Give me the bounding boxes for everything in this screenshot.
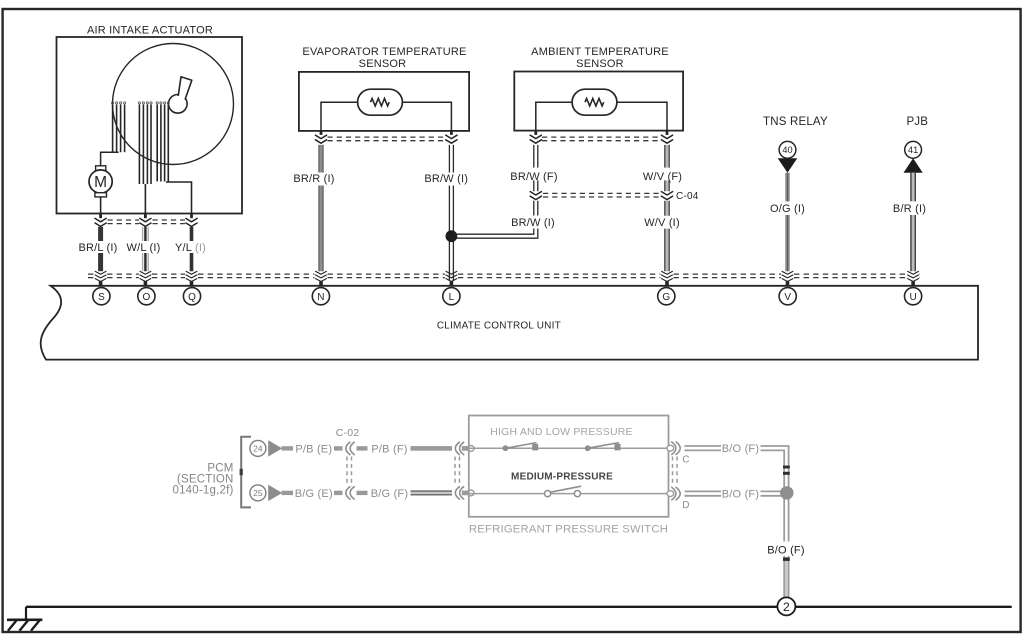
label C-02 (336, 427, 360, 439)
svg-text:P/B (F): P/B (F) (371, 443, 407, 455)
label W/L (I) (127, 242, 161, 254)
ground connector 2 (777, 597, 795, 615)
ambient connector dashes (542, 137, 661, 141)
wire BR/R (I) (319, 145, 323, 271)
svg-text:AIR INTAKE ACTUATOR: AIR INTAKE ACTUATOR (87, 24, 213, 36)
svg-text:2: 2 (783, 600, 790, 614)
ambient thermistor body (572, 89, 617, 115)
svg-text:AMBIENT TEMPERATURE: AMBIENT TEMPERATURE (531, 46, 669, 58)
climate connector break V (782, 271, 793, 281)
actuator key knob (169, 95, 188, 114)
svg-text:L: L (449, 292, 455, 303)
label Y/L (I) (175, 242, 206, 254)
air intake actuator box (57, 37, 243, 214)
wire Y/L (I) (190, 227, 194, 271)
label W/V (F) (643, 171, 682, 183)
wire W/V ambient (665, 145, 669, 271)
svg-text:0140-1g,2f): 0140-1g,2f) (172, 485, 233, 497)
climate connector break Q (186, 271, 197, 281)
connector C-04 break right (661, 192, 672, 200)
TNS relay arrow down (778, 158, 798, 173)
wire BR/W (I) ambient lower (451, 201, 558, 238)
climate unit pin V (779, 288, 796, 305)
ambient thermistor leads (536, 102, 667, 130)
svg-text:S: S (98, 292, 105, 303)
climate unit pin G (658, 288, 675, 305)
PJB pin 41 circle (905, 141, 922, 158)
PJB label (906, 116, 928, 128)
svg-text:BR/R (I): BR/R (I) (293, 173, 334, 185)
evaporator thermistor body (358, 89, 403, 115)
actuator key handle (178, 77, 192, 100)
svg-text:MEDIUM-PRESSURE: MEDIUM-PRESSURE (511, 472, 613, 483)
wire B/O (F) upper corner (761, 446, 789, 597)
ground symbol (7, 620, 42, 631)
air intake actuator label (87, 24, 213, 36)
switch inlet boundary dashes (455, 457, 460, 487)
PJB arrow up (904, 158, 923, 173)
svg-text:U: U (909, 292, 916, 303)
evaporator thermistor resistor element (371, 99, 390, 106)
climate unit pin Q (183, 288, 200, 305)
evaporator connector break right (446, 135, 457, 143)
evaporator connector dashes (328, 137, 446, 141)
svg-text:N: N (317, 292, 324, 303)
wire BR/W (I) evaporator (449, 145, 453, 281)
PCM pin 25 row B/G (250, 485, 474, 501)
refrigerant pressure switch box (469, 416, 669, 517)
wire O/G (I) (785, 173, 790, 271)
actuator connector break Q (186, 218, 197, 226)
label C-04 (676, 191, 699, 202)
wire bundle1 to motor (101, 152, 119, 166)
svg-text:C: C (682, 454, 689, 465)
ambient thermistor resistor element (585, 99, 604, 106)
climate unit pin U (905, 288, 922, 305)
climate connector break U (908, 271, 919, 281)
actuator wiper bundle 3 (156, 102, 169, 182)
switch outlet D row B/O (667, 487, 759, 510)
wire B/O (F) lower horizontal (761, 491, 782, 495)
wire bundle3 to pin Q stub (166, 182, 192, 214)
climate connector break L (446, 271, 457, 281)
switch row C wire (469, 447, 669, 449)
svg-text:BR/W (F): BR/W (F) (510, 171, 557, 183)
svg-text:D: D (682, 500, 689, 511)
climate unit connector dashes (88, 274, 920, 278)
svg-text:B/O (F): B/O (F) (722, 489, 759, 501)
svg-text:V: V (784, 292, 791, 303)
motor M1 bottom brush (95, 193, 107, 197)
svg-text:P/B (E): P/B (E) (295, 443, 332, 455)
svg-text:41: 41 (908, 145, 918, 155)
wire motor to pin S stub (100, 197, 102, 214)
climate connector break O (140, 271, 151, 281)
switch outlet boundary dashes (673, 457, 678, 487)
svg-text:B/R (I): B/R (I) (893, 203, 926, 215)
climate unit pin L (443, 288, 460, 305)
actuator dial circle (113, 44, 234, 165)
wire B/O color dashes (783, 466, 790, 561)
label BR/W (F) (510, 171, 557, 183)
switch outlet C row B/O (667, 442, 759, 465)
evaporator connector stubs (321, 131, 451, 135)
svg-text:B/G (E): B/G (E) (295, 488, 333, 500)
label BR/W (I) ambient (511, 217, 555, 229)
climate connector break G (662, 271, 673, 281)
svg-text:B/O (F): B/O (F) (722, 443, 759, 455)
ambient connector break right (661, 135, 672, 143)
svg-text:B/G (F): B/G (F) (371, 488, 408, 500)
svg-text:40: 40 (782, 145, 792, 155)
climate control unit label (437, 321, 561, 332)
evaporator sensor box (299, 72, 469, 131)
svg-text:Q: Q (188, 292, 196, 303)
TNS relay pin 40 circle (779, 141, 796, 158)
svg-text:25: 25 (253, 488, 263, 498)
wire bundle2 to pin O stub (144, 184, 146, 214)
evaporator connector break left (315, 135, 326, 143)
label HIGH AND LOW PRESSURE (490, 426, 632, 438)
svg-text:SENSOR: SENSOR (576, 58, 624, 70)
svg-text:C-04: C-04 (676, 191, 699, 202)
actuator connector break S (95, 218, 106, 226)
PCM pin 24 row P/B (250, 440, 474, 456)
svg-text:BR/L (I): BR/L (I) (78, 242, 117, 254)
evaporator thermistor leads (321, 102, 451, 131)
ground stub (25, 607, 27, 620)
label B/O (F) vertical (767, 542, 806, 557)
svg-text:HIGH AND LOW PRESSURE: HIGH AND LOW PRESSURE (490, 426, 632, 438)
svg-text:CLIMATE CONTROL UNIT: CLIMATE CONTROL UNIT (437, 321, 561, 332)
actuator wiper bundle 1 (112, 102, 126, 152)
svg-text:TNS RELAY: TNS RELAY (763, 116, 828, 128)
ambient sensor label (531, 46, 669, 70)
ambient sensor box (514, 72, 683, 131)
refrigerant pressure switch label (469, 523, 668, 535)
high/low pressure switch 2 (585, 443, 621, 452)
climate unit pin N (312, 288, 329, 305)
wire BR/W (F) ambient (534, 145, 538, 191)
ambient connector break left (530, 135, 541, 143)
svg-text:(I): (I) (195, 242, 206, 254)
actuator connector stubs (101, 214, 192, 219)
label O/G (I) (770, 203, 805, 215)
medium pressure switch (545, 486, 582, 497)
svg-text:G: G (662, 292, 670, 303)
connector C-04 dashes (543, 193, 660, 197)
wire B/R (I) (911, 173, 915, 271)
svg-text:W/L (I): W/L (I) (127, 242, 161, 254)
svg-text:EVAPORATOR TEMPERATURE: EVAPORATOR TEMPERATURE (302, 46, 466, 58)
junction dot BR/W (446, 230, 458, 242)
actuator wiper bundle 2 (138, 102, 152, 184)
label MEDIUM-PRESSURE (511, 472, 613, 483)
high/low pressure switch 1 (503, 443, 539, 452)
TNS relay label (763, 116, 828, 128)
label BR/W (I) evaporator (424, 173, 468, 185)
climate connector break N (316, 271, 327, 281)
junction dot B/O (780, 486, 793, 499)
PCM bracket (240, 437, 251, 508)
climate unit pin O (138, 288, 155, 305)
svg-text:SENSOR: SENSOR (359, 58, 407, 70)
svg-text:24: 24 (253, 443, 263, 453)
svg-text:O: O (143, 292, 151, 303)
svg-text:Y/L: Y/L (175, 242, 192, 254)
switch row D wire (469, 493, 669, 495)
motor M1 top brush (96, 166, 106, 171)
wire B/O lower gray fill (785, 557, 788, 597)
svg-text:PJB: PJB (906, 116, 928, 128)
PCM label (172, 462, 233, 496)
svg-text:O/G (I): O/G (I) (770, 203, 805, 215)
wire BR/L (I) (98, 227, 103, 271)
svg-text:BR/W (I): BR/W (I) (424, 173, 468, 185)
climate control unit body (41, 286, 978, 360)
svg-text:W/V (I): W/V (I) (644, 217, 680, 229)
label W/V (I) (644, 217, 680, 229)
svg-text:(SECTION: (SECTION (177, 473, 234, 485)
actuator connector break O (140, 218, 151, 226)
svg-text:C-02: C-02 (336, 427, 360, 439)
svg-text:B/O (F): B/O (F) (767, 544, 804, 556)
actuator connector dashes (108, 220, 186, 224)
label B/R (I) (893, 203, 926, 215)
svg-text:BR/W (I): BR/W (I) (511, 217, 555, 229)
svg-text:REFRIGERANT PRESSURE SWITCH: REFRIGERANT PRESSURE SWITCH (469, 523, 668, 535)
label BR/L (I) (78, 242, 117, 254)
connector C-02 boundary dashes (347, 457, 352, 487)
evaporator sensor label (302, 46, 466, 70)
svg-text:W/V (F): W/V (F) (643, 171, 682, 183)
motor M1 body (89, 170, 112, 193)
climate connector pin stubs (101, 281, 914, 285)
label BR/R (I) (293, 173, 334, 185)
ambient connector stubs (536, 131, 667, 135)
climate connector break S (95, 271, 106, 281)
svg-text:M: M (94, 174, 107, 191)
wire W/L (I) (143, 227, 149, 271)
ground bus wire (26, 606, 1012, 608)
connector C-04 break left (530, 192, 541, 200)
climate unit pin S (93, 288, 110, 305)
